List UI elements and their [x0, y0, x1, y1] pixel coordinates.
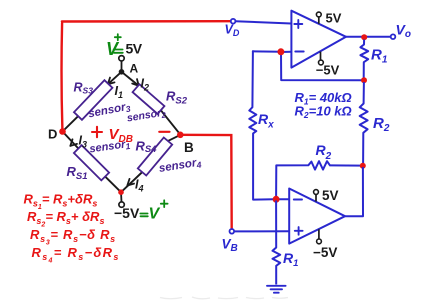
current I4 arrowhead [127, 179, 134, 186]
wire red: node B right and down to VB terminal [181, 135, 232, 229]
svg-text:V: V [149, 206, 161, 223]
wire: U1 output to Vo terminal [346, 36, 390, 38]
op-amp U2 plus input sign [295, 227, 303, 235]
bridge negative supply equals sign (green) [140, 214, 148, 217]
svg-text:−5V: −5V [313, 245, 337, 260]
resistor R2 (right column, below R1) [360, 82, 368, 164]
junction lower feedback node [360, 163, 366, 169]
wire: bridge arm A to B (lower segment) [161, 110, 181, 135]
current I2 arrowhead [132, 79, 139, 86]
svg-text:D: D [48, 127, 57, 142]
wire: U1 minus node left to Rx column [253, 50, 281, 53]
op-amp U2 5V supply stem and terminal [315, 194, 317, 201]
op-amp U2 [289, 189, 345, 244]
current I1 arrowhead [108, 78, 115, 85]
op-amp U1 plus input sign [294, 20, 302, 28]
junction U1 minus input node [277, 48, 284, 55]
resistor RS2 body [133, 84, 165, 114]
resistor R2 (lower op-amp feedback) [276, 161, 362, 197]
node B [177, 132, 184, 139]
wire: lower feedback node down to U2 output [345, 167, 363, 216]
resistor R1 (top, between output and feedback node) [360, 40, 368, 79]
op-amp U1 minus input sign [295, 51, 303, 53]
svg-text:B: B [184, 140, 194, 155]
op-amp U2 minus input sign [294, 199, 302, 201]
resistor Rx (column between the two op-amp minus inputs) [249, 51, 273, 199]
node A [119, 69, 125, 75]
bridge VDB minus sign (red) [159, 131, 169, 133]
node VD terminal [231, 19, 236, 24]
wire: bridge arm B to C (lower segment with I4 arrow) [121, 172, 143, 193]
svg-text:−5V: −5V [316, 63, 340, 78]
bridge negative supply V+ plus sign [161, 200, 168, 207]
bridge VDB plus sign (red) [92, 127, 102, 137]
node Vo terminal [391, 34, 396, 39]
wire: bridge arm B to C (upper segment) [168, 135, 181, 141]
node VB terminal [230, 229, 235, 234]
wire: bridge arm A to B (upper segment with I2 arrow) [122, 72, 139, 86]
op-amp U1 -5V supply stem and terminal [320, 52, 322, 60]
faint page marks at bottom [160, 297, 288, 299]
wire: U2 minus input stub [276, 198, 289, 200]
bridge supply equals sign [114, 50, 123, 53]
svg-text:5V: 5V [322, 188, 339, 203]
node C [118, 189, 124, 195]
svg-text:A: A [130, 62, 139, 76]
wire: bridge arm D to A (upper segment with I1 arrow) [108, 72, 122, 85]
resistor R1 (lower, U2 minus node to ground) [273, 201, 281, 285]
wire: VD terminal to op-amp U1 + input [236, 21, 292, 23]
resistor RS1 body [74, 145, 109, 180]
current I3 arrowhead [70, 139, 77, 146]
resistor RS4 body [138, 137, 172, 175]
op-amp U1 5V supply stem and terminal [318, 17, 320, 24]
wire: bridge arm D to C (lower segment) [105, 176, 121, 192]
wire: bridge arm D to A (lower segment) [63, 115, 80, 131]
svg-text:−5V: −5V [114, 205, 140, 221]
op-amp U1 [291, 11, 346, 68]
wire: VB terminal to U2 plus input [234, 230, 289, 232]
node C (bridge bottom) stem and terminal [120, 194, 122, 202]
node A stem and terminal [121, 61, 123, 70]
junction U2 minus input node [273, 196, 280, 203]
op-amp U2 -5V supply stem and terminal [318, 229, 320, 239]
wire red: node D up left side to top rail to VD terminal [62, 21, 231, 129]
svg-text:R2=10 kΩ: R2=10 kΩ [295, 104, 352, 121]
junction R1/R2 node [361, 77, 367, 83]
svg-text:5V: 5V [126, 41, 143, 57]
svg-text:5V: 5V [326, 10, 342, 25]
resistor RS3 body [74, 80, 112, 120]
node D [59, 128, 66, 135]
junction output node [361, 34, 367, 40]
wire: bridge arm D to C (upper segment with I3 arrow) [63, 132, 79, 149]
wire: feedback from R1/R2 node left and up to U1 minus input [281, 52, 364, 81]
ground [267, 286, 286, 293]
bridge supply V+ plus sign [115, 34, 121, 40]
